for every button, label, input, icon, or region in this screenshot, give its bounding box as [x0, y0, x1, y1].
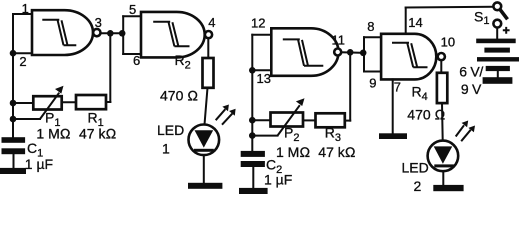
battery B1 plate 4 short — [486, 66, 510, 71]
svg-text:47 kΩ: 47 kΩ — [79, 126, 116, 142]
wire S1 to battery — [496, 28, 498, 39]
svg-text:1: 1 — [162, 141, 170, 157]
junction dot node11/feedback riser — [347, 49, 354, 56]
NAND Schmitt gate U1c — [271, 28, 338, 76]
junction dot rail/P2 — [249, 117, 256, 124]
wire C1 to ground — [13, 154, 15, 168]
svg-text:1 µF: 1 µF — [25, 156, 53, 172]
junction dot rail/wiper2/C2 — [249, 132, 256, 139]
schmitt symbol U1c — [283, 39, 324, 65]
wire R4 to LED2 — [441, 103, 444, 141]
wire P1 wiper return to rail — [13, 118, 40, 120]
LED D1 triangle — [195, 130, 214, 147]
LED D2 triangle — [434, 146, 453, 163]
switch S1 terminal circle top — [493, 2, 501, 10]
wire node 11 to gate U1d inputs bracket — [341, 51, 364, 54]
junction dot node3/bracket — [119, 30, 126, 37]
wire middle rail node B (C2/P2/inputs 12-13) — [251, 35, 253, 152]
wire input bracket U1b pins 5-6 — [122, 16, 124, 54]
svg-text:1: 1 — [22, 1, 29, 16]
svg-text:1 MΩ: 1 MΩ — [36, 126, 70, 142]
capacitor C1 top plate — [2, 137, 26, 143]
battery B1 plate 2 short — [484, 48, 510, 53]
output bubble pin11 U1c — [334, 49, 341, 56]
svg-text:LED: LED — [157, 122, 184, 138]
capacitor C2 bottom plate — [241, 161, 265, 167]
output bubble pin10 U1d — [438, 53, 445, 60]
NAND Schmitt gate U1d — [381, 34, 436, 80]
svg-text:6: 6 — [133, 53, 140, 68]
junction dot rail/pin13 — [249, 67, 256, 74]
wire pin13 to gate U1c — [252, 69, 271, 71]
capacitor C1 bottom plate — [2, 148, 26, 154]
wire pin10 down to R4 — [440, 60, 442, 73]
svg-text:2: 2 — [19, 54, 26, 69]
wire feedback riser R1 to node 3 — [109, 33, 111, 102]
wire pin5 to gate U1b — [123, 15, 141, 17]
LED D1 light arrow 2 — [222, 114, 232, 125]
svg-text:470 Ω: 470 Ω — [407, 107, 445, 123]
potentiometer P2 wiper arrow — [278, 105, 300, 135]
wire battery negative stub — [497, 71, 499, 77]
switch S1 lever — [500, 9, 508, 19]
svg-text:11: 11 — [332, 33, 346, 48]
resistor R2 — [203, 58, 214, 88]
svg-text:LED: LED — [402, 160, 429, 176]
LED D1 circle — [189, 125, 220, 156]
potentiometer P1 wiper arrow — [40, 93, 59, 119]
svg-text:1 MΩ: 1 MΩ — [276, 144, 310, 160]
schmitt symbol U1b — [153, 22, 189, 47]
wire pin7 stub to ground — [392, 79, 394, 133]
ground bar LED1 — [188, 183, 222, 189]
potentiometer P1 body — [33, 96, 61, 109]
wire pin9 to gate U1d — [364, 71, 381, 73]
wire LED2 to ground — [442, 171, 444, 185]
svg-text:9: 9 — [369, 76, 376, 91]
svg-text:10: 10 — [441, 35, 455, 50]
svg-text:47 kΩ: 47 kΩ — [318, 144, 355, 160]
potentiometer P2 body — [271, 113, 304, 127]
resistor R1 — [76, 95, 106, 109]
svg-text:1 µF: 1 µF — [264, 172, 292, 188]
LED D2 light arrow 2 — [461, 130, 471, 141]
svg-text:8: 8 — [367, 19, 374, 34]
wire pin1 top from rail to gate U1a — [13, 13, 32, 15]
LED D1 light arrow 1 — [216, 109, 226, 120]
wire pin12 to gate U1c — [252, 34, 271, 36]
wire feedback riser R3 to node 11 — [349, 52, 351, 120]
battery B1 plate 1 long — [476, 39, 516, 44]
ground bar battery — [483, 77, 513, 84]
capacitor C2 top plate — [241, 151, 265, 157]
wire R3 to feedback riser — [345, 120, 350, 122]
label + battery — [503, 27, 510, 34]
resistor R4 — [437, 73, 447, 103]
wire pin4 down to R2 — [207, 38, 210, 58]
wire P2 left terminal from rail — [252, 119, 270, 121]
wire top rail to switch S1 — [406, 6, 494, 9]
svg-text:3: 3 — [95, 15, 102, 30]
output bubble pin4 U1b — [205, 31, 212, 38]
wire P1 left terminal from rail — [13, 102, 33, 104]
switch S1 terminal circle bottom — [493, 20, 501, 28]
NAND Schmitt gate U1a — [32, 10, 93, 55]
svg-text:12: 12 — [251, 16, 265, 31]
svg-text:470 Ω: 470 Ω — [160, 88, 198, 104]
LED D2 circle — [428, 141, 459, 172]
wire C2 to ground — [252, 167, 254, 188]
wire R2 to LED1 — [205, 88, 208, 125]
ground bar pin7 — [379, 133, 407, 139]
svg-text:2: 2 — [414, 178, 422, 194]
junction dot node11/bracket — [360, 50, 367, 57]
svg-text:4: 4 — [208, 15, 215, 30]
junction dot node3/feedback riser — [107, 30, 114, 37]
ground bar C2 — [239, 188, 268, 194]
svg-text:9 V: 9 V — [461, 81, 482, 97]
LED D1 cathode bar — [194, 149, 214, 152]
junction dot rail/P1 — [10, 100, 17, 107]
wire node 3 from bubble to gate U1b inputs bracket — [101, 32, 124, 34]
ground bar LED2 — [433, 185, 463, 191]
NAND Schmitt gate U1b — [141, 12, 205, 58]
svg-text:6 V/: 6 V/ — [459, 63, 483, 79]
wire pin14 riser to top rail — [405, 8, 407, 34]
wire pin2 from rail to gate U1a — [13, 52, 32, 54]
svg-text:7: 7 — [394, 80, 401, 95]
schmitt symbol U1d — [392, 43, 428, 67]
wire pin8 to gate U1d — [364, 36, 381, 38]
output bubble pin3 U1a — [93, 29, 100, 36]
wire P1 to R1 — [62, 101, 76, 103]
wire pin6 to gate U1b — [123, 53, 141, 55]
battery B1 plate 3 long — [477, 57, 519, 61]
wire P2 to R3 — [303, 119, 316, 121]
wire left rail node A (C1/P1/inputs) — [12, 14, 14, 138]
ground bar C1 — [0, 168, 26, 174]
svg-text:5: 5 — [129, 2, 136, 17]
wire LED1 to ground — [203, 155, 205, 183]
wire R1 to feedback riser — [106, 101, 110, 103]
LED D2 cathode bar — [434, 164, 454, 167]
junction dot rail/pin2 — [10, 50, 17, 57]
junction dot rail/wiper — [10, 116, 17, 123]
LED D2 light arrow 1 — [456, 125, 464, 136]
wire P2 wiper return to rail — [252, 135, 277, 137]
resistor R3 — [316, 113, 345, 127]
svg-text:14: 14 — [408, 15, 422, 30]
wire input bracket U1d pins 8-9 — [363, 37, 365, 71]
schmitt symbol U1a — [42, 20, 76, 45]
svg-text:13: 13 — [257, 71, 271, 86]
